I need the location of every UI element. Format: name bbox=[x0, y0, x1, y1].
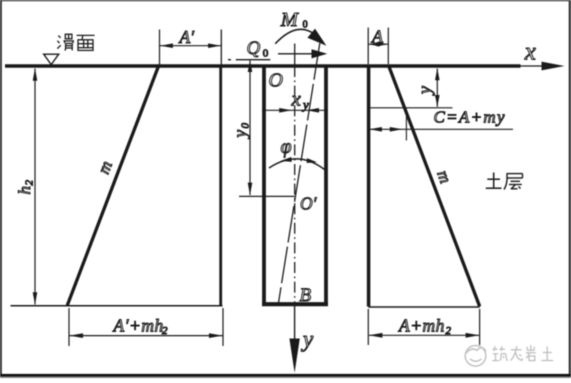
svg-text:C=A+my: C=A+my bbox=[434, 107, 506, 126]
xy left arrowhead bbox=[279, 108, 292, 113]
y0 label bbox=[230, 123, 252, 140]
A'+mh2 dimension line bbox=[70, 335, 223, 337]
y depth label bbox=[414, 86, 434, 96]
tu (soil) glyph bbox=[486, 173, 502, 189]
A extension line left bbox=[367, 28, 369, 65]
C left arrowhead bbox=[369, 127, 382, 132]
C dimension baseline bbox=[369, 128, 514, 130]
svg-text:0: 0 bbox=[263, 48, 269, 60]
svg-text:B: B bbox=[300, 285, 312, 306]
svg-text:M: M bbox=[280, 9, 300, 31]
A right arrowhead bbox=[377, 42, 388, 47]
svg-text:y: y bbox=[230, 130, 250, 140]
C right arrowhead bbox=[390, 127, 403, 132]
right slope line m bbox=[388, 65, 479, 307]
svg-text:A′: A′ bbox=[179, 27, 196, 47]
A+mh2 extension line right bbox=[479, 309, 481, 345]
Q0 arrowhead bbox=[312, 49, 328, 58]
ceng (layer) glyph bbox=[504, 174, 523, 190]
right diagram bottom line bbox=[368, 306, 479, 308]
A dimension line bbox=[369, 43, 389, 45]
svg-text:A′+mh: A′+mh bbox=[113, 316, 164, 336]
watermark logo bbox=[465, 346, 486, 367]
svg-text:x: x bbox=[291, 86, 302, 110]
xy right arrowhead bbox=[306, 108, 319, 113]
A'+mh2 left arrowhead bbox=[69, 333, 83, 338]
M0 arrowhead bbox=[307, 29, 326, 46]
svg-text:O: O bbox=[269, 70, 283, 92]
svg-text:0: 0 bbox=[303, 19, 308, 30]
svg-text:φ: φ bbox=[281, 136, 292, 158]
xy dimension line bbox=[262, 109, 328, 111]
y depth top arrowhead bbox=[435, 68, 440, 80]
svg-text:0: 0 bbox=[240, 123, 252, 129]
h2 bottom arrowhead bbox=[33, 292, 38, 305]
right m label bbox=[433, 168, 455, 186]
y0 dimension line bbox=[249, 61, 251, 196]
A'+mh2 extension line left bbox=[68, 308, 70, 346]
border left bbox=[0, 0, 2, 378]
A+mh2 left arrowhead bbox=[369, 333, 383, 338]
svg-text:A: A bbox=[371, 26, 384, 46]
A' dimension line bbox=[160, 45, 221, 47]
svg-text:y: y bbox=[301, 97, 309, 112]
A+mh2 extension line left bbox=[367, 309, 369, 345]
y0 bottom arrowhead bbox=[248, 183, 253, 196]
y0 top arrowhead bbox=[248, 61, 253, 72]
A extension line right bbox=[387, 28, 389, 65]
y axis arrowhead bbox=[289, 339, 299, 373]
O' level line bbox=[239, 195, 295, 197]
A'+mh2 right arrowhead bbox=[209, 333, 223, 338]
hua (slide) glyph bbox=[57, 34, 74, 50]
border bottom strip bbox=[0, 374, 571, 377]
A'+mh2 extension line right bbox=[222, 308, 224, 346]
h2 label bbox=[15, 180, 36, 195]
y axis line bbox=[294, 306, 296, 342]
phi arc right arrowhead bbox=[307, 158, 317, 163]
M0 moment arc bbox=[275, 29, 313, 43]
phi angle arc bbox=[269, 159, 325, 170]
svg-text:2: 2 bbox=[446, 325, 452, 337]
slip surface marker triangle bbox=[44, 54, 59, 64]
svg-text:h: h bbox=[15, 186, 34, 195]
svg-text:x: x bbox=[524, 39, 536, 66]
svg-text:A+mh: A+mh bbox=[398, 316, 445, 336]
svg-text:O′: O′ bbox=[300, 194, 318, 214]
h2 top arrowhead bbox=[33, 68, 38, 81]
pile bottom bbox=[262, 302, 328, 306]
right zero line (pile face of right diagram) bbox=[367, 66, 371, 307]
left m label bbox=[94, 158, 116, 176]
svg-text:2: 2 bbox=[162, 325, 168, 337]
A' left arrowhead bbox=[160, 43, 173, 48]
A' right arrowhead bbox=[208, 43, 221, 48]
pile centerline dash-dot bbox=[294, 66, 296, 304]
h2 dimension line bbox=[34, 69, 36, 305]
A' extension line left bbox=[159, 30, 161, 65]
mian (surface) glyph bbox=[77, 35, 95, 50]
A+mh2 right arrowhead bbox=[466, 333, 480, 338]
x axis line bbox=[520, 65, 545, 67]
Q0 action dash-dot line bbox=[228, 59, 231, 60]
pile right edge bbox=[324, 66, 328, 305]
watermark text zhu long yan tu bbox=[492, 345, 553, 361]
left slope line m bbox=[67, 65, 159, 305]
Q0 force arrow line bbox=[278, 53, 313, 55]
svg-text:y: y bbox=[301, 327, 314, 352]
svg-text:2: 2 bbox=[24, 180, 36, 186]
phi arc left arrowhead bbox=[281, 157, 292, 162]
deflected pile axis bbox=[279, 43, 320, 303]
A+mh2 dimension line bbox=[369, 334, 479, 336]
pile centerline above ground bbox=[294, 44, 296, 67]
ground line (slip surface) bbox=[5, 64, 521, 67]
left zero line (vertical boundary of left soil diagram) bbox=[220, 30, 222, 67]
depth y level line bbox=[369, 107, 453, 109]
x axis arrowhead bbox=[542, 62, 565, 71]
svg-text:y: y bbox=[414, 86, 434, 96]
y depth bottom arrowhead bbox=[435, 95, 440, 107]
left diagram bottom line bbox=[11, 305, 223, 307]
y depth dimension line (right) bbox=[436, 69, 438, 107]
A left arrowhead bbox=[369, 42, 380, 47]
border right bbox=[569, 0, 571, 378]
svg-text:Q: Q bbox=[247, 38, 261, 59]
border top bbox=[0, 0, 571, 1]
C dimension tick bbox=[405, 116, 407, 141]
pile left edge bbox=[262, 66, 266, 305]
